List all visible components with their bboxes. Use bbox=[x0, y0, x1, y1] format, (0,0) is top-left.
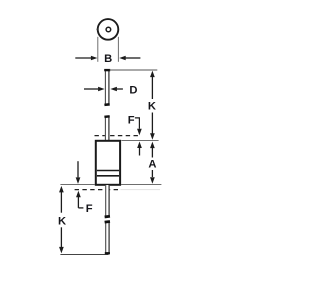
F bottom down arrow bbox=[77, 161, 79, 177]
F bottom leader bbox=[78, 207, 83, 209]
dashed reference line top bbox=[95, 135, 142, 137]
faint dashed-line continuation right bbox=[121, 189, 161, 191]
lead end-view outer circle bbox=[98, 19, 119, 40]
svg-text:B: B bbox=[104, 53, 112, 65]
dashed reference line bottom bbox=[75, 189, 119, 191]
dim B left arrow bbox=[75, 57, 91, 59]
dim A down arrow bbox=[151, 170, 153, 177]
extension line right of circle bbox=[117, 37, 119, 62]
dim B right arrow bbox=[125, 57, 140, 59]
svg-text:K: K bbox=[148, 101, 156, 113]
dim K bottom up arrow bbox=[59, 186, 64, 193]
F bottom up arrow bbox=[76, 191, 81, 198]
body bottom extension line left bbox=[60, 184, 95, 186]
cathode band line 1 bbox=[97, 170, 119, 172]
diode body bbox=[96, 141, 120, 185]
body bottom extension line right bbox=[121, 184, 161, 186]
bottom lead lower segment bbox=[105, 221, 109, 254]
lead tip reference line bottom bbox=[60, 254, 108, 256]
F top up arrow bbox=[137, 142, 142, 149]
tangent tick on circle left bbox=[97, 28, 99, 30]
top lead lower segment bbox=[105, 116, 110, 141]
bottom lead upper segment bbox=[105, 185, 109, 216]
dim D left arrow bbox=[84, 88, 98, 90]
body top extension line bbox=[121, 140, 158, 142]
K top reference line from lead top bbox=[110, 69, 158, 71]
dim A up arrow bbox=[150, 142, 155, 149]
svg-text:F: F bbox=[128, 114, 135, 126]
F top leader bracket bbox=[135, 118, 140, 129]
dim K bottom down arrow bbox=[60, 227, 62, 247]
lead end-view center dot bbox=[106, 27, 111, 32]
svg-text:A: A bbox=[148, 159, 156, 171]
dim K top up arrow bbox=[150, 71, 155, 78]
dim D right arrow bbox=[117, 88, 123, 90]
cathode band line 2 bbox=[97, 175, 119, 177]
svg-text:K: K bbox=[58, 215, 66, 227]
top lead upper segment bbox=[105, 70, 110, 105]
extension line left of circle bbox=[97, 37, 99, 62]
dim K top down arrow bbox=[151, 113, 153, 134]
svg-text:F: F bbox=[86, 203, 93, 215]
svg-text:D: D bbox=[129, 84, 137, 96]
F top down arrow bbox=[137, 129, 142, 136]
